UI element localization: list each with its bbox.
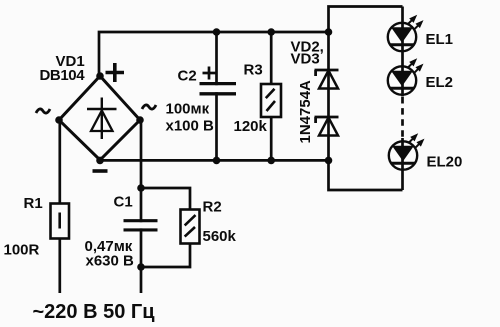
svg-text:EL2: EL2	[426, 74, 454, 91]
svg-text:DB104: DB104	[40, 67, 86, 84]
svg-text:100мк: 100мк	[166, 101, 210, 118]
svg-text:х100 В: х100 В	[166, 118, 215, 135]
svg-text:C1: C1	[114, 194, 133, 211]
svg-text:VD3: VD3	[291, 51, 320, 68]
svg-text:х630 В: х630 В	[86, 253, 135, 270]
svg-text:560k: 560k	[203, 228, 237, 245]
svg-text:EL1: EL1	[426, 31, 454, 48]
svg-text:R3: R3	[244, 62, 263, 79]
svg-text:100R: 100R	[4, 242, 40, 259]
svg-text:R2: R2	[203, 199, 222, 216]
svg-text:EL20: EL20	[427, 154, 463, 171]
svg-text:120k: 120k	[234, 118, 268, 135]
svg-text:1N4754A: 1N4754A	[297, 80, 314, 144]
svg-text:R1: R1	[24, 195, 43, 212]
svg-text:~220 В 50 Гц: ~220 В 50 Гц	[33, 301, 156, 323]
svg-text:C2: C2	[178, 68, 197, 85]
